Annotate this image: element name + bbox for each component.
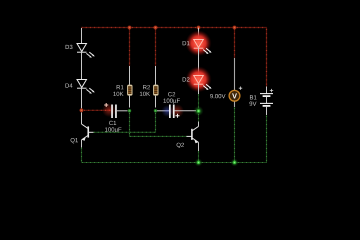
label D3 xyxy=(66,45,73,49)
node B: C1/R1/Q2-base junction (green dot) xyxy=(128,109,132,113)
wire: node B down and right to Q2 base (green) xyxy=(130,112,187,136)
label R1 xyxy=(117,85,124,89)
wire: +V drop to voltmeter xyxy=(234,28,236,59)
label R2 xyxy=(143,85,150,89)
capacitor C2 (polarized, + right) xyxy=(162,104,185,118)
resistor R1 xyxy=(127,66,132,108)
battery B1 top lead xyxy=(266,87,268,94)
wire: D4 cathode down to node A xyxy=(81,88,83,108)
value label 10K (R1) xyxy=(113,92,123,96)
wire: D2 cathode down to node D (white then green) xyxy=(198,84,200,94)
node A: Q1 collector / C1+ junction (red dot) xyxy=(79,108,83,112)
LED D4 xyxy=(77,80,95,94)
LED D1 (lit) xyxy=(186,30,212,56)
voltmeter U1 top lead xyxy=(234,58,236,90)
wire: D3 anode lead xyxy=(81,28,83,44)
value label 100uF (C1) xyxy=(105,127,121,132)
label B1 xyxy=(250,95,257,99)
wire: battery to ground rail (green) xyxy=(266,115,268,163)
wire: node C down to Q1 base line (green) xyxy=(94,112,156,132)
node: rail junction at R1 xyxy=(128,26,132,30)
value label 10K (R2) xyxy=(140,92,150,96)
node D: Q2 collector / D2 cathode junction (glowing green dot) xyxy=(194,106,204,116)
label Q1 xyxy=(71,138,78,143)
wire: +V drop to R1 xyxy=(129,28,131,67)
wire: Q1 emitter to ground rail (green) xyxy=(81,148,83,163)
LED D3 xyxy=(77,44,95,58)
label D2 xyxy=(183,77,190,81)
node: rail junction at voltmeter xyxy=(233,26,237,30)
label C1 xyxy=(109,121,116,125)
wire: C1 negative plate to node B xyxy=(117,110,128,112)
label Q2 xyxy=(177,143,184,148)
wire: Q2 emitter to ground rail (green) xyxy=(198,151,200,161)
node: ground junction at voltmeter xyxy=(231,159,239,167)
value label 9V xyxy=(249,102,256,106)
resistor R2 xyxy=(153,66,158,108)
value label 100uF (C2) xyxy=(164,99,180,104)
node: ground junction at Q2 emitter xyxy=(195,159,203,167)
label C2 xyxy=(168,92,175,96)
node: rail junction at R2 xyxy=(154,26,158,30)
wire: D1 anode lead from rail xyxy=(198,28,200,40)
label D4 xyxy=(66,83,73,87)
wire: +V drop to R2 xyxy=(155,28,157,67)
wire: node C to C2 negative plate xyxy=(157,110,169,112)
wire: D1 cathode to D2 anode xyxy=(198,48,200,75)
node: rail junction at D1 xyxy=(197,26,201,30)
wire: voltmeter bottom lead xyxy=(234,102,236,108)
LED D2 (lit) xyxy=(186,66,212,92)
+V rail wire (top, red) xyxy=(82,27,267,29)
battery B1 xyxy=(260,89,273,115)
reading label 9.00V xyxy=(210,94,225,98)
transistor Q2 (NPN, mirrored) xyxy=(187,126,199,151)
wire: node A to C1 positive plate (red) xyxy=(83,109,111,111)
transistor Q1 (NPN) xyxy=(82,112,94,147)
capacitor C1 (polarized, + left) xyxy=(102,103,117,118)
wire: +V drop to battery B1 xyxy=(266,28,268,87)
wire: D3 cathode to D4 anode xyxy=(81,52,83,79)
wire: C2 positive plate to node D xyxy=(175,110,196,112)
wire: voltmeter to ground rail (green) xyxy=(234,107,236,161)
node C: R2/C2/Q1-base junction (green dot) xyxy=(154,109,158,113)
ground rail wire (bottom, green) xyxy=(82,162,267,164)
label D1 xyxy=(183,41,190,45)
wire: node D down to Q2 collector xyxy=(198,114,200,122)
voltmeter U1 (V) xyxy=(229,87,242,102)
